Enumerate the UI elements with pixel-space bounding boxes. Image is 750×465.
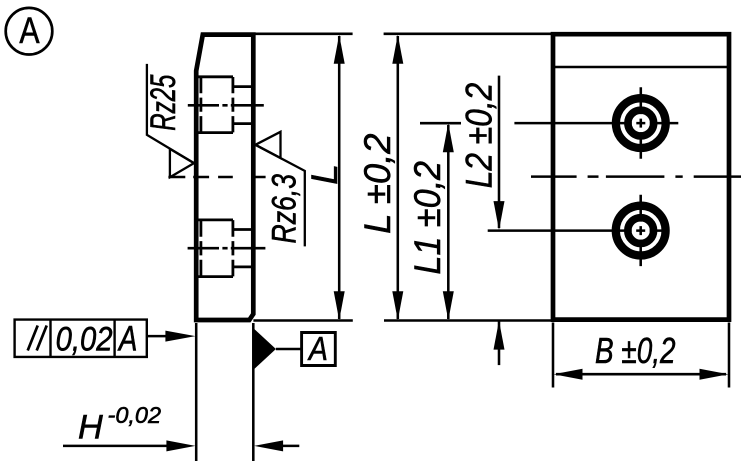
svg-text:0,02: 0,02	[56, 321, 113, 359]
svg-text:B ±0,2: B ±0,2	[595, 330, 676, 371]
svg-text:L1 ±0,2: L1 ±0,2	[406, 161, 448, 275]
hole 2 (front view)	[488, 195, 667, 266]
extension line top (front view)	[384, 33, 551, 36]
parallelism feature control frame // 0,02 A	[15, 320, 196, 359]
front view chamfer edge line	[555, 66, 727, 69]
svg-text:L2 ±0,2: L2 ±0,2	[458, 83, 500, 189]
centerline hole 2 (side view)	[188, 247, 266, 250]
extension line bottom (front view)	[384, 319, 558, 322]
svg-text:Rz25: Rz25	[143, 74, 183, 130]
extension line top (side view)	[256, 33, 353, 36]
counterbore hole 2 (side view)	[198, 220, 251, 277]
dimension B ±0,2	[553, 323, 729, 388]
dimension L ±0,2	[356, 35, 403, 321]
centerline hole 1 (side view)	[188, 104, 264, 107]
hole 1 (front view)	[514, 87, 678, 159]
surface finish symbol Rz25	[143, 64, 194, 177]
dimension L2 ±0,2	[458, 76, 505, 366]
counterbore hole 1 (side view)	[198, 77, 251, 133]
surface finish symbol Rz6,3	[255, 132, 304, 247]
centerline part middle (side view)	[168, 176, 265, 179]
svg-text:Rz6,3: Rz6,3	[266, 174, 304, 244]
svg-text:L: L	[303, 164, 345, 185]
svg-text:H: H	[78, 408, 103, 446]
svg-text:A: A	[307, 331, 328, 368]
svg-text:A: A	[117, 320, 137, 359]
extension line bottom (side view)	[253, 319, 352, 322]
side view outline	[196, 35, 253, 320]
svg-text:A: A	[19, 10, 40, 51]
datum label circled A	[6, 8, 53, 55]
dimension L1 ±0,2	[406, 123, 461, 320]
datum feature symbol A	[254, 328, 336, 369]
dimension L	[303, 35, 345, 321]
svg-text:L ±0,2: L ±0,2	[356, 133, 398, 234]
svg-text:-0,02: -0,02	[108, 402, 162, 428]
dimension H -0,02	[63, 323, 299, 461]
front view outline	[553, 34, 729, 319]
front view horizontal centerline	[531, 175, 741, 178]
